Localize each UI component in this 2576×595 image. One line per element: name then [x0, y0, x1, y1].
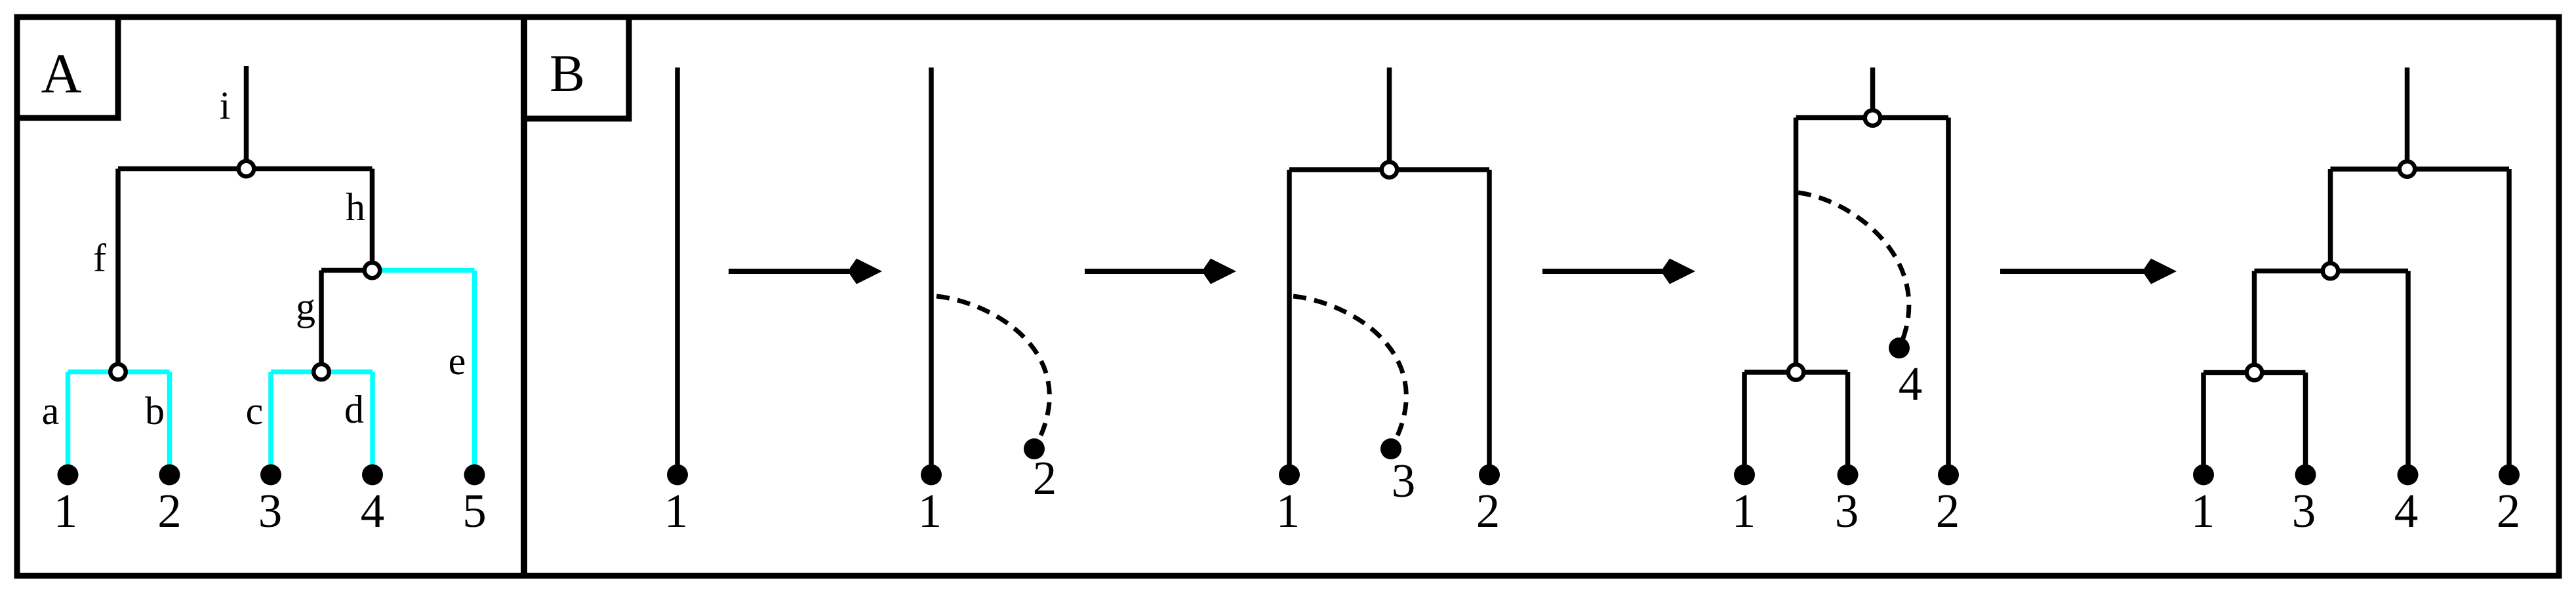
step2 dashed-end dot 2: [1024, 438, 1045, 459]
svg-text:B: B: [550, 44, 585, 103]
svg-text:2: 2: [157, 484, 182, 537]
leaf dot 3 panel A: [260, 465, 281, 486]
step1 leaf dot 1: [667, 465, 688, 486]
leaf dot 2 panel A: [159, 465, 180, 486]
svg-text:i: i: [220, 84, 231, 127]
svg-text:4: 4: [2394, 484, 2419, 537]
step2 dashed attachment curve for leaf 2: [936, 296, 1049, 449]
step4 branch to leaf 3: [1845, 372, 1851, 474]
step5 leaf dot 1: [2193, 465, 2214, 486]
step5 leaf dot 4: [2398, 465, 2419, 486]
edge d: [370, 372, 375, 470]
svg-text:g: g: [296, 285, 315, 328]
ab clade horizontal: [68, 370, 170, 375]
leaf dot 5 panel A: [464, 465, 485, 486]
step5 node2: [2323, 263, 2339, 279]
step5 branch to leaf 4: [2405, 271, 2411, 475]
step4 left branch down to inner node: [1794, 118, 1799, 373]
step5 node3 horizontal: [2204, 370, 2306, 375]
step5 right branch to leaf 2: [2506, 169, 2512, 474]
svg-text:1: 1: [1732, 484, 1756, 537]
step3 leaf dot 2: [1479, 465, 1500, 486]
step4 branch to leaf 1: [1742, 372, 1747, 474]
svg-text:d: d: [344, 388, 364, 431]
step3 root horizontal: [1289, 167, 1489, 172]
step5 branch to leaf 3: [2303, 373, 2308, 475]
cd clade horizontal: [271, 370, 372, 375]
step5 leaf dot 3: [2295, 465, 2316, 486]
internal node root A: [239, 161, 254, 177]
svg-text:1: 1: [664, 484, 689, 537]
step5 node2 horizontal: [2255, 269, 2409, 274]
svg-text:1: 1: [2191, 484, 2215, 537]
edge c: [268, 372, 273, 470]
step3 dashed attachment curve for leaf 3: [1293, 296, 1406, 449]
step1 lineage line: [675, 67, 680, 474]
step2 lineage line: [929, 67, 934, 474]
step4 root stub: [1870, 67, 1876, 118]
svg-text:h: h: [346, 185, 365, 229]
svg-text:e: e: [449, 339, 466, 383]
svg-text:3: 3: [258, 484, 283, 537]
svg-text:a: a: [42, 389, 60, 432]
svg-text:2: 2: [1033, 451, 1057, 505]
step5 node3: [2247, 365, 2263, 381]
arrow 4: [2000, 259, 2177, 284]
step5 root stub: [2405, 67, 2410, 169]
step5 branch to leaf 1: [2201, 373, 2206, 475]
edge i (root stub, panel A): [244, 66, 249, 169]
svg-text:1: 1: [54, 484, 78, 537]
svg-text:4: 4: [1899, 357, 1923, 410]
step4 inner clade horizontal: [1744, 370, 1848, 375]
svg-text:3: 3: [1835, 484, 1859, 537]
step5 root node: [2400, 161, 2415, 177]
svg-text:A: A: [41, 42, 81, 105]
step3 root stub: [1387, 67, 1392, 170]
step4 leaf dot 2: [1938, 465, 1959, 486]
step3 dashed-end dot 3: [1380, 438, 1401, 459]
svg-text:2: 2: [1476, 484, 1500, 537]
svg-text:4: 4: [361, 484, 385, 537]
edge a: [66, 372, 71, 470]
svg-text:3: 3: [1392, 454, 1416, 507]
panel label box A: [14, 14, 119, 119]
step4 leaf dot 1: [1734, 465, 1755, 486]
svg-text:2: 2: [1936, 484, 1960, 537]
internal node cd: [313, 364, 329, 380]
svg-text:5: 5: [462, 484, 487, 537]
svg-text:2: 2: [2497, 484, 2521, 537]
svg-text:1: 1: [918, 484, 942, 537]
root horizontal wire panel A: [118, 166, 372, 172]
step5 left branch down to node3: [2252, 271, 2257, 373]
step4 dashed-end dot 4: [1889, 337, 1910, 358]
step3 root node: [1382, 162, 1398, 178]
step3 leaf dot 1: [1279, 465, 1300, 486]
leaf dot 1 panel A: [58, 465, 79, 486]
arrow 2: [1085, 259, 1236, 284]
step4 inner node: [1788, 364, 1804, 380]
arrow 1: [729, 259, 882, 284]
svg-text:1: 1: [1276, 484, 1300, 537]
step5 root horizontal: [2331, 166, 2510, 172]
step4 root node: [1865, 110, 1881, 126]
internal node h: [365, 263, 380, 278]
step3 right branch to leaf 2: [1487, 170, 1492, 474]
step4 leaf dot 3: [1838, 465, 1859, 486]
step4 right branch to leaf 2: [1946, 118, 1951, 475]
svg-text:f: f: [93, 237, 106, 280]
step4 dashed attachment curve for leaf 4: [1798, 193, 1909, 348]
step2 leaf dot 1: [921, 465, 942, 486]
edge g: [319, 271, 324, 372]
internal node ab: [110, 364, 126, 380]
panel label box B: [521, 14, 629, 119]
edge f: [115, 169, 121, 372]
edge e: [472, 271, 477, 470]
step4 root horizontal: [1796, 115, 1949, 121]
h-node right horizontal (cyan): [372, 268, 475, 273]
step5 left branch down to node2: [2328, 169, 2333, 271]
step3 left branch to leaf 1: [1287, 170, 1292, 474]
svg-text:3: 3: [2292, 484, 2316, 537]
h-node left horizontal (black): [321, 268, 372, 273]
svg-text:b: b: [145, 389, 165, 432]
svg-text:c: c: [246, 389, 264, 432]
arrow 3: [1542, 259, 1695, 284]
leaf dot 4 panel A: [362, 465, 383, 486]
edge b: [167, 372, 172, 470]
edge h: [370, 169, 375, 271]
step5 leaf dot 2: [2499, 465, 2520, 486]
